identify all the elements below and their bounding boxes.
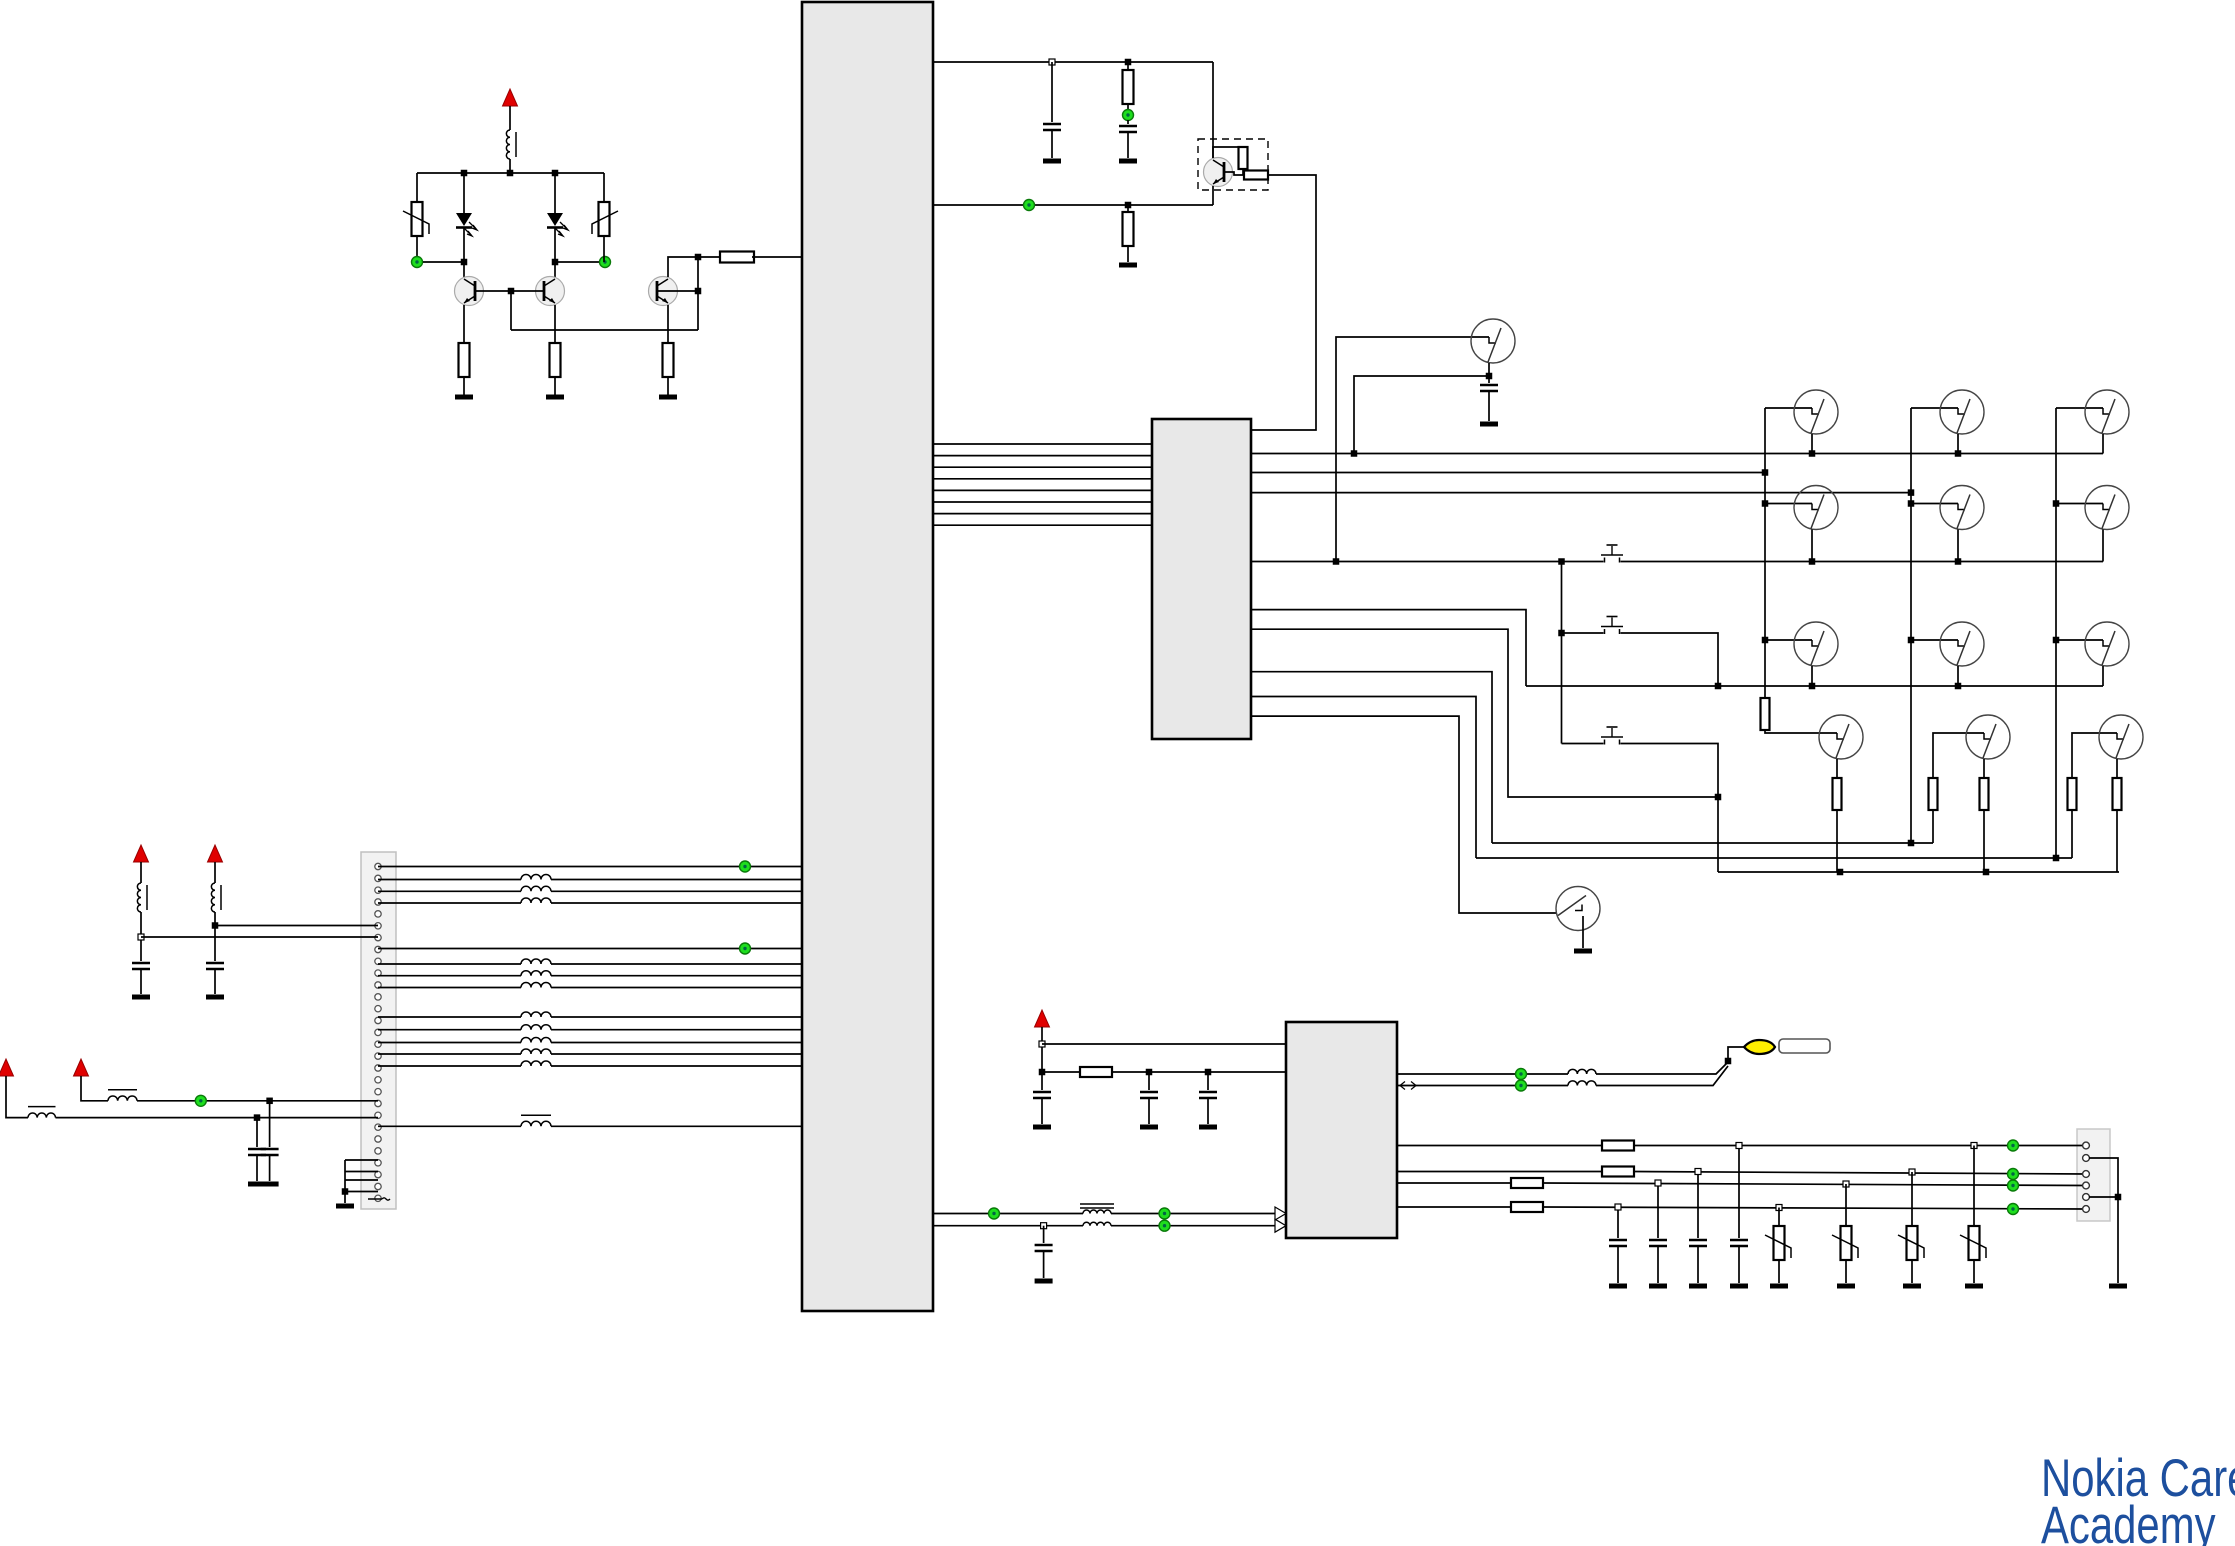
wire button B2 net (1562, 633, 1719, 686)
ground C4 (132, 995, 150, 1000)
connector X2 SIM/accessory (bottom right) (2077, 1129, 2110, 1221)
chassis symbol X1 shield (368, 1198, 390, 1200)
wire ground comb vertical (344, 1160, 346, 1203)
wire R4 to ground (554, 377, 556, 395)
wire C8 drop (1041, 1072, 1043, 1090)
wire C6 to ground (269, 1155, 271, 1181)
resistor R14 (1980, 778, 1989, 810)
wire rail1 to U3 (1042, 1043, 1286, 1045)
wire keypad bus 3 (933, 466, 1152, 468)
wire pin23 to U1 (378, 1125, 521, 1127)
pin X2-4 (2083, 1182, 2090, 1189)
junction C9 tap (1146, 1069, 1153, 1076)
wire C12 drop (1617, 1207, 1619, 1238)
resistor R21 (1511, 1202, 1543, 1212)
wire column V2 (1910, 408, 1912, 843)
wire Va button column (1561, 562, 1563, 744)
wire C1 to ground (1051, 130, 1053, 158)
wire VBAT3 to bead (214, 862, 216, 883)
wire U1 net VOUT top (933, 61, 1213, 63)
wire Q3 base lead (657, 290, 698, 292)
pin X1-27 (375, 1171, 381, 1177)
wire column V3 (2055, 408, 2057, 858)
ground C5 (206, 995, 224, 1000)
wire R11 to row4 entry (1765, 730, 1837, 733)
inductor L14 (521, 1061, 551, 1066)
wire R18 to X2 (1634, 1145, 2086, 1147)
wire pin2 to U1 (378, 879, 521, 881)
pin C14 tap (1695, 1169, 1701, 1175)
wire C11 to ground (1043, 1251, 1045, 1278)
push button B1 (1601, 545, 1623, 564)
varistor VC1 (1765, 1226, 1791, 1260)
junction Q3 collector tie (695, 254, 702, 261)
pin X2-6 (2083, 1206, 2090, 1213)
wire R10 to ground (1127, 246, 1129, 262)
wire ground pin 26 (345, 1179, 378, 1181)
wire pin6 to L3 (215, 925, 378, 927)
ground C14 (1689, 1284, 1707, 1289)
junction row3 stub col2 (1955, 683, 1962, 690)
resistor R4 (550, 343, 561, 377)
switch S11 row4 col1 (1819, 715, 1863, 759)
resistor R17 (1080, 1067, 1112, 1077)
resistor R12 (1833, 778, 1842, 810)
pin rail1 tap (1039, 1041, 1045, 1047)
resistor R9 base (1244, 171, 1268, 180)
wire Q1 emitter (463, 305, 465, 343)
varistor R1 left (403, 202, 429, 236)
wire C5 to ground (214, 969, 216, 994)
transistor Q4 vibra driver (1204, 158, 1233, 187)
node test point J14 (2008, 1169, 2019, 1180)
wire C15 drop (1738, 1146, 1740, 1239)
inductor L10 (521, 1012, 551, 1017)
wire U2 p6 row3 feed (1251, 610, 1526, 686)
transistor Q2 (536, 277, 565, 306)
wire row3 entry col1 (1765, 639, 1812, 641)
pin X2-5 (2083, 1194, 2090, 1201)
wire pin8 to U1 (378, 948, 802, 950)
inductor L18 (1568, 1069, 1596, 1074)
capacitor C1 (1043, 124, 1061, 130)
pin X1-16 (375, 1041, 381, 1047)
capacitor C13 (1649, 1240, 1667, 1246)
wire column V1 (1764, 408, 1766, 698)
switch S3 row1 (2085, 390, 2129, 434)
wire pin7 to L2 (141, 936, 378, 938)
wire VC3 to ground (1911, 1260, 1913, 1283)
ground VC2 (1837, 1284, 1855, 1289)
wire row3 entry col2 (1911, 639, 1958, 641)
junction S0 cap node (1486, 373, 1493, 380)
wire U3 IR anode (1397, 1073, 1568, 1075)
wire C3 to ground (1488, 391, 1490, 421)
connector X1 board-to-board (left) (361, 852, 396, 1209)
wire U3 sim3 (1397, 1182, 1511, 1184)
wire L15 to pin22 (56, 1117, 379, 1119)
wire Q3 collector up (668, 257, 722, 277)
wire D2 node to Q2 collector (554, 262, 556, 277)
wire R9 out to keypad net (1251, 175, 1316, 430)
inductor L4 (521, 875, 551, 880)
pin X1-24 (375, 1136, 381, 1142)
switch S1 row1 (1794, 390, 1838, 434)
switch S13 row4 col3 (2099, 715, 2143, 759)
wire node A down (510, 291, 512, 330)
input marker U3 pin a (1275, 1207, 1286, 1220)
pin X1-8 (375, 946, 381, 952)
ground Q1 emitter (455, 395, 473, 400)
pin C15 tap (1736, 1143, 1742, 1149)
wire VBAT5 down (81, 1076, 108, 1101)
junction row2 entry col2 (1908, 500, 1915, 507)
junction L3 pin6 (212, 922, 219, 929)
wire Q4 base lead (1224, 172, 1244, 175)
wire L1 to rail (509, 159, 511, 173)
LED D1 (456, 213, 477, 236)
wire rail left drop (416, 173, 418, 203)
ground C9 (1140, 1125, 1158, 1130)
wire S13 stub (2116, 759, 2118, 778)
wire pin12 to U1 (378, 987, 521, 989)
junction W3 col1 (1837, 869, 1844, 876)
wire L9 to U1 (551, 987, 802, 989)
ground C10 (1199, 1125, 1217, 1130)
wire C14 drop (1697, 1172, 1699, 1239)
wire row1 stub col3 (2102, 434, 2104, 454)
transistor Q1 (455, 277, 484, 306)
wire S0 bottom (1488, 363, 1490, 376)
push button B3 (1601, 727, 1623, 746)
wire keypad bus 6 (933, 501, 1152, 503)
capacitor C14 (1689, 1240, 1707, 1246)
wire X2 pin2 to ground rail (2089, 1158, 2118, 1283)
resistor R7 (1123, 70, 1134, 104)
junction S0 col on row2 (1333, 558, 1340, 565)
wire C10 to ground (1207, 1098, 1209, 1124)
wire W2 bottom net2 (1476, 857, 2072, 859)
wire D1 to junction (463, 228, 465, 262)
junction ground comb (342, 1188, 349, 1195)
wire keypad bus 1 (933, 443, 1152, 445)
inductor T1 winding B (1083, 1222, 1111, 1225)
wire U2 p10 to S10 (1251, 716, 1556, 913)
wire R21 to X2 (1543, 1207, 2086, 1209)
inductor L11 (521, 1025, 551, 1030)
wire C7 drop (256, 1118, 258, 1147)
IR module body (1779, 1039, 1830, 1053)
pin X1-11 (375, 982, 381, 988)
node test point J10 (1159, 1220, 1170, 1231)
wire U3 sim2 (1397, 1171, 1602, 1173)
wire L2 down (140, 912, 142, 961)
wire D1 node to Q1 collector (463, 262, 465, 277)
junction rail-D2 (552, 170, 559, 177)
switch S4 row2 (1794, 486, 1838, 530)
wire C9 drop (1148, 1072, 1150, 1090)
wire row3 stub col2 (1957, 666, 1959, 686)
pin X1-18 (375, 1065, 381, 1071)
wire row3 stub col3 (2102, 666, 2104, 686)
ground C1 (1043, 159, 1061, 164)
wire node A to Q2 base (511, 290, 544, 292)
node test point J15 (2008, 1180, 2019, 1191)
power arrow VBAT5 (74, 1059, 89, 1076)
wire U2 p3 to col1 (1251, 472, 1765, 474)
resistor R10 (1123, 212, 1134, 246)
wire S11 stub (1836, 759, 1838, 778)
wire row1 stub col1 (1811, 434, 1813, 454)
wire U2 p5 row2 (1251, 561, 2103, 563)
varistor R2 right (592, 202, 618, 236)
wire keypad bus 4 (933, 478, 1152, 480)
resistor R19 (1602, 1167, 1634, 1177)
node test point J2 (600, 257, 611, 268)
wire pin1 to U1 (378, 866, 802, 868)
ground Q3 emitter (659, 395, 677, 400)
pin X1-12 (375, 994, 381, 1000)
pin X1-10 (375, 970, 381, 976)
junction Va button2 (1558, 630, 1565, 637)
wire ground pin 25 (345, 1171, 378, 1173)
capacitor C9 (1140, 1092, 1158, 1098)
node test point J7 (195, 1095, 206, 1106)
power arrow VBAT2 left (134, 845, 149, 862)
wire C14 to ground (1697, 1246, 1699, 1283)
wire L11 to U1 (551, 1029, 802, 1031)
wire R10 drop (1127, 205, 1129, 212)
pin C13 tap (1655, 1180, 1661, 1186)
inductor L16 (108, 1090, 137, 1101)
junction C6 tap (266, 1098, 273, 1105)
wire C12 to ground (1617, 1246, 1619, 1283)
wire L6 to U1 (551, 902, 802, 904)
resistor R11 col1 (1761, 698, 1770, 730)
switch S7 row3 (1794, 622, 1838, 666)
resistor R18 (1602, 1141, 1634, 1151)
junction Va on row2 (1558, 558, 1565, 565)
wire C6 drop (269, 1101, 271, 1147)
resistor R15 (2068, 778, 2077, 810)
wire L4 to U1 (551, 879, 802, 881)
LED D2 (547, 213, 568, 236)
wire T1B to U3 (1111, 1225, 1275, 1227)
ground X2 (2109, 1284, 2127, 1289)
ground C15 (1730, 1284, 1748, 1289)
resistor R6 to U1 (720, 252, 754, 263)
varistor VC3 (1898, 1226, 1924, 1260)
ground C8 (1033, 1125, 1051, 1130)
junction row3 entry col1 (1762, 637, 1769, 644)
capacitor C5 (206, 963, 224, 969)
resistor R16 (2113, 778, 2122, 810)
wire U1-U3 data2 (933, 1225, 1083, 1227)
wire Q3 emitter (667, 305, 669, 343)
wire L16 to pin21 (137, 1100, 378, 1102)
wire Q1 base to node A (475, 290, 511, 292)
ground C12 (1609, 1284, 1627, 1289)
wire keypad bus 2 (933, 455, 1152, 457)
junction rail-D1 (461, 170, 468, 177)
wire rail2 left seg (1042, 1071, 1080, 1073)
junction V3 on W2 (2053, 855, 2060, 862)
wire U2 p2 row1 (1251, 453, 2103, 455)
pin VC4 tap (1776, 1205, 1782, 1211)
wire top rail (417, 172, 604, 174)
wire L14 to U1 (551, 1065, 802, 1067)
wire R19 to X2 (1634, 1172, 2086, 1175)
wire U2 p4 to col2 (1251, 492, 1911, 494)
wire U1-U3 data1 (933, 1213, 1083, 1215)
pin X1-6 (375, 923, 381, 929)
ground R10 (1119, 263, 1137, 268)
capacitor C10 (1199, 1092, 1217, 1098)
junction S0 on row1 (1351, 450, 1358, 457)
IC U1 main baseband processor (802, 2, 933, 1311)
node test point J13 (2008, 1140, 2019, 1151)
wire VBAT to bead L1 (509, 106, 511, 130)
wire row1 entry col1 (1765, 407, 1812, 409)
resistor R20 (1511, 1178, 1543, 1188)
wire rail2 to U3 (1112, 1071, 1286, 1073)
wire VC2 to ground (1845, 1260, 1847, 1283)
power arrow VIR (1035, 1010, 1050, 1027)
inductor L9 (521, 983, 551, 988)
wire L8 to U1 (551, 975, 802, 977)
node test point J3 (1123, 110, 1134, 121)
IC U2 keypad driver (1152, 419, 1251, 739)
inductor L8 (521, 971, 551, 976)
wire pin11 to U1 (378, 975, 521, 977)
junction row2 entry col1 (1762, 500, 1769, 507)
wire row2 entry col3 (2056, 503, 2103, 505)
wire row2 stub col2 (1957, 530, 1959, 562)
capacitor C4 (132, 963, 150, 969)
junction X2 ground rail (2115, 1194, 2122, 1201)
switch S10 end key (1556, 887, 1600, 931)
junction col2 p4 (1908, 489, 1915, 496)
wire U2 p8 W1 feed (1251, 672, 1492, 843)
node test point J5 (740, 861, 751, 872)
wire S10 exit (1582, 916, 1584, 948)
wire R14 to W3 (1983, 810, 1985, 872)
ground S10 (1574, 949, 1592, 954)
wire VC1 to ground (1778, 1260, 1780, 1283)
wire S0 cap drop (1488, 376, 1490, 383)
wire rail to D2 (554, 173, 556, 213)
wire pin10 to U1 (378, 963, 521, 965)
wire row2 entry col1 (1765, 503, 1812, 505)
wire L12 to U1 (551, 1042, 802, 1044)
wire S0 entry (1336, 337, 1489, 562)
pin X2-3 (2083, 1171, 2090, 1178)
wire J1 to D1 cathode (423, 261, 464, 263)
wire U3 sim1 (1397, 1145, 1602, 1147)
ground VC3 (1903, 1284, 1921, 1289)
wire C1 drop (1051, 62, 1053, 122)
wire D2 to node (554, 228, 556, 262)
wire VBAT2 to bead (140, 862, 142, 883)
pin X1-9 (375, 958, 381, 964)
wire D2 node to J2 (555, 261, 605, 263)
resistor R5 (663, 343, 674, 377)
wire R7 to C2 (1127, 104, 1129, 110)
inductor L6 (521, 898, 551, 903)
pin L2 pin7 tap (138, 934, 144, 940)
switch S12 row4 col2 (1966, 715, 2010, 759)
resistor R8 bias (1239, 147, 1248, 169)
wire U1 net two (933, 204, 1213, 206)
ground Q2 emitter (546, 395, 564, 400)
IR LED D3 lens (1744, 1040, 1775, 1054)
wire L13 to U1 (551, 1053, 802, 1055)
junction col1 p3 (1762, 469, 1769, 476)
node test point J1 (412, 257, 423, 268)
wire row2 stub col1 (1811, 530, 1813, 562)
switch S2 row1 (1940, 390, 1984, 434)
pin X1-15 (375, 1029, 381, 1035)
capacitor C11 (1035, 1245, 1053, 1251)
inductor L19 (1568, 1081, 1596, 1086)
switch S5 row2 (1940, 486, 1984, 530)
wire J3 to C2 (1127, 120, 1129, 124)
wire R3 to ground (463, 377, 465, 395)
wire T1A to U3 (1111, 1213, 1275, 1215)
wire L18 to LED (1596, 1062, 1728, 1074)
junction C7 tap (254, 1114, 261, 1121)
junction row3 entry col2 (1908, 637, 1915, 644)
inductor L12 (521, 1038, 551, 1043)
wire row3 entry col3 (2056, 639, 2103, 641)
wire C11 drop (1043, 1226, 1045, 1243)
wire ground pin 27 (345, 1191, 378, 1193)
wire LED feed up (1728, 1047, 1744, 1061)
wire R2 to J2 (603, 236, 605, 262)
switch S8 row3 (1940, 622, 1984, 666)
pin X1-3 (375, 887, 381, 893)
wire L10 to U1 (551, 1016, 802, 1018)
wire base bus bottom (511, 329, 698, 331)
wire pin3 to U1 (378, 890, 521, 892)
junction rail-L1 (507, 170, 514, 177)
junction D2-Q2 (552, 259, 559, 266)
switch S6 row2 (2085, 486, 2129, 530)
wire rail right drop (603, 173, 605, 203)
wire ground pin 24 (345, 1159, 378, 1161)
switch S0 power key (1471, 319, 1515, 363)
wire pin15 to U1 (378, 1029, 521, 1031)
wire U3 sim4 (1397, 1206, 1511, 1208)
wire L7 to U1 (551, 963, 802, 965)
junction R10 tap (1125, 202, 1132, 209)
pin VC1 tap (1971, 1143, 1977, 1149)
ground C6 (261, 1182, 279, 1187)
junction row3 entry col3 (2053, 637, 2060, 644)
capacitor C3 key filter (1480, 385, 1498, 391)
transistor Q4 dashed module box (1198, 139, 1268, 190)
inductor T1 winding A (1083, 1210, 1111, 1214)
capacitor C12 (1609, 1240, 1627, 1246)
wire S0 node to row1 (1354, 376, 1489, 454)
wire VOUT down to Q4 (1212, 62, 1214, 158)
capacitor C15 (1730, 1240, 1748, 1246)
pin X1-20 (375, 1089, 381, 1095)
pin X1-14 (375, 1017, 381, 1023)
push button B2 (1601, 617, 1623, 636)
pin X1-26 (375, 1160, 381, 1166)
varistor VC2 (1832, 1226, 1858, 1260)
